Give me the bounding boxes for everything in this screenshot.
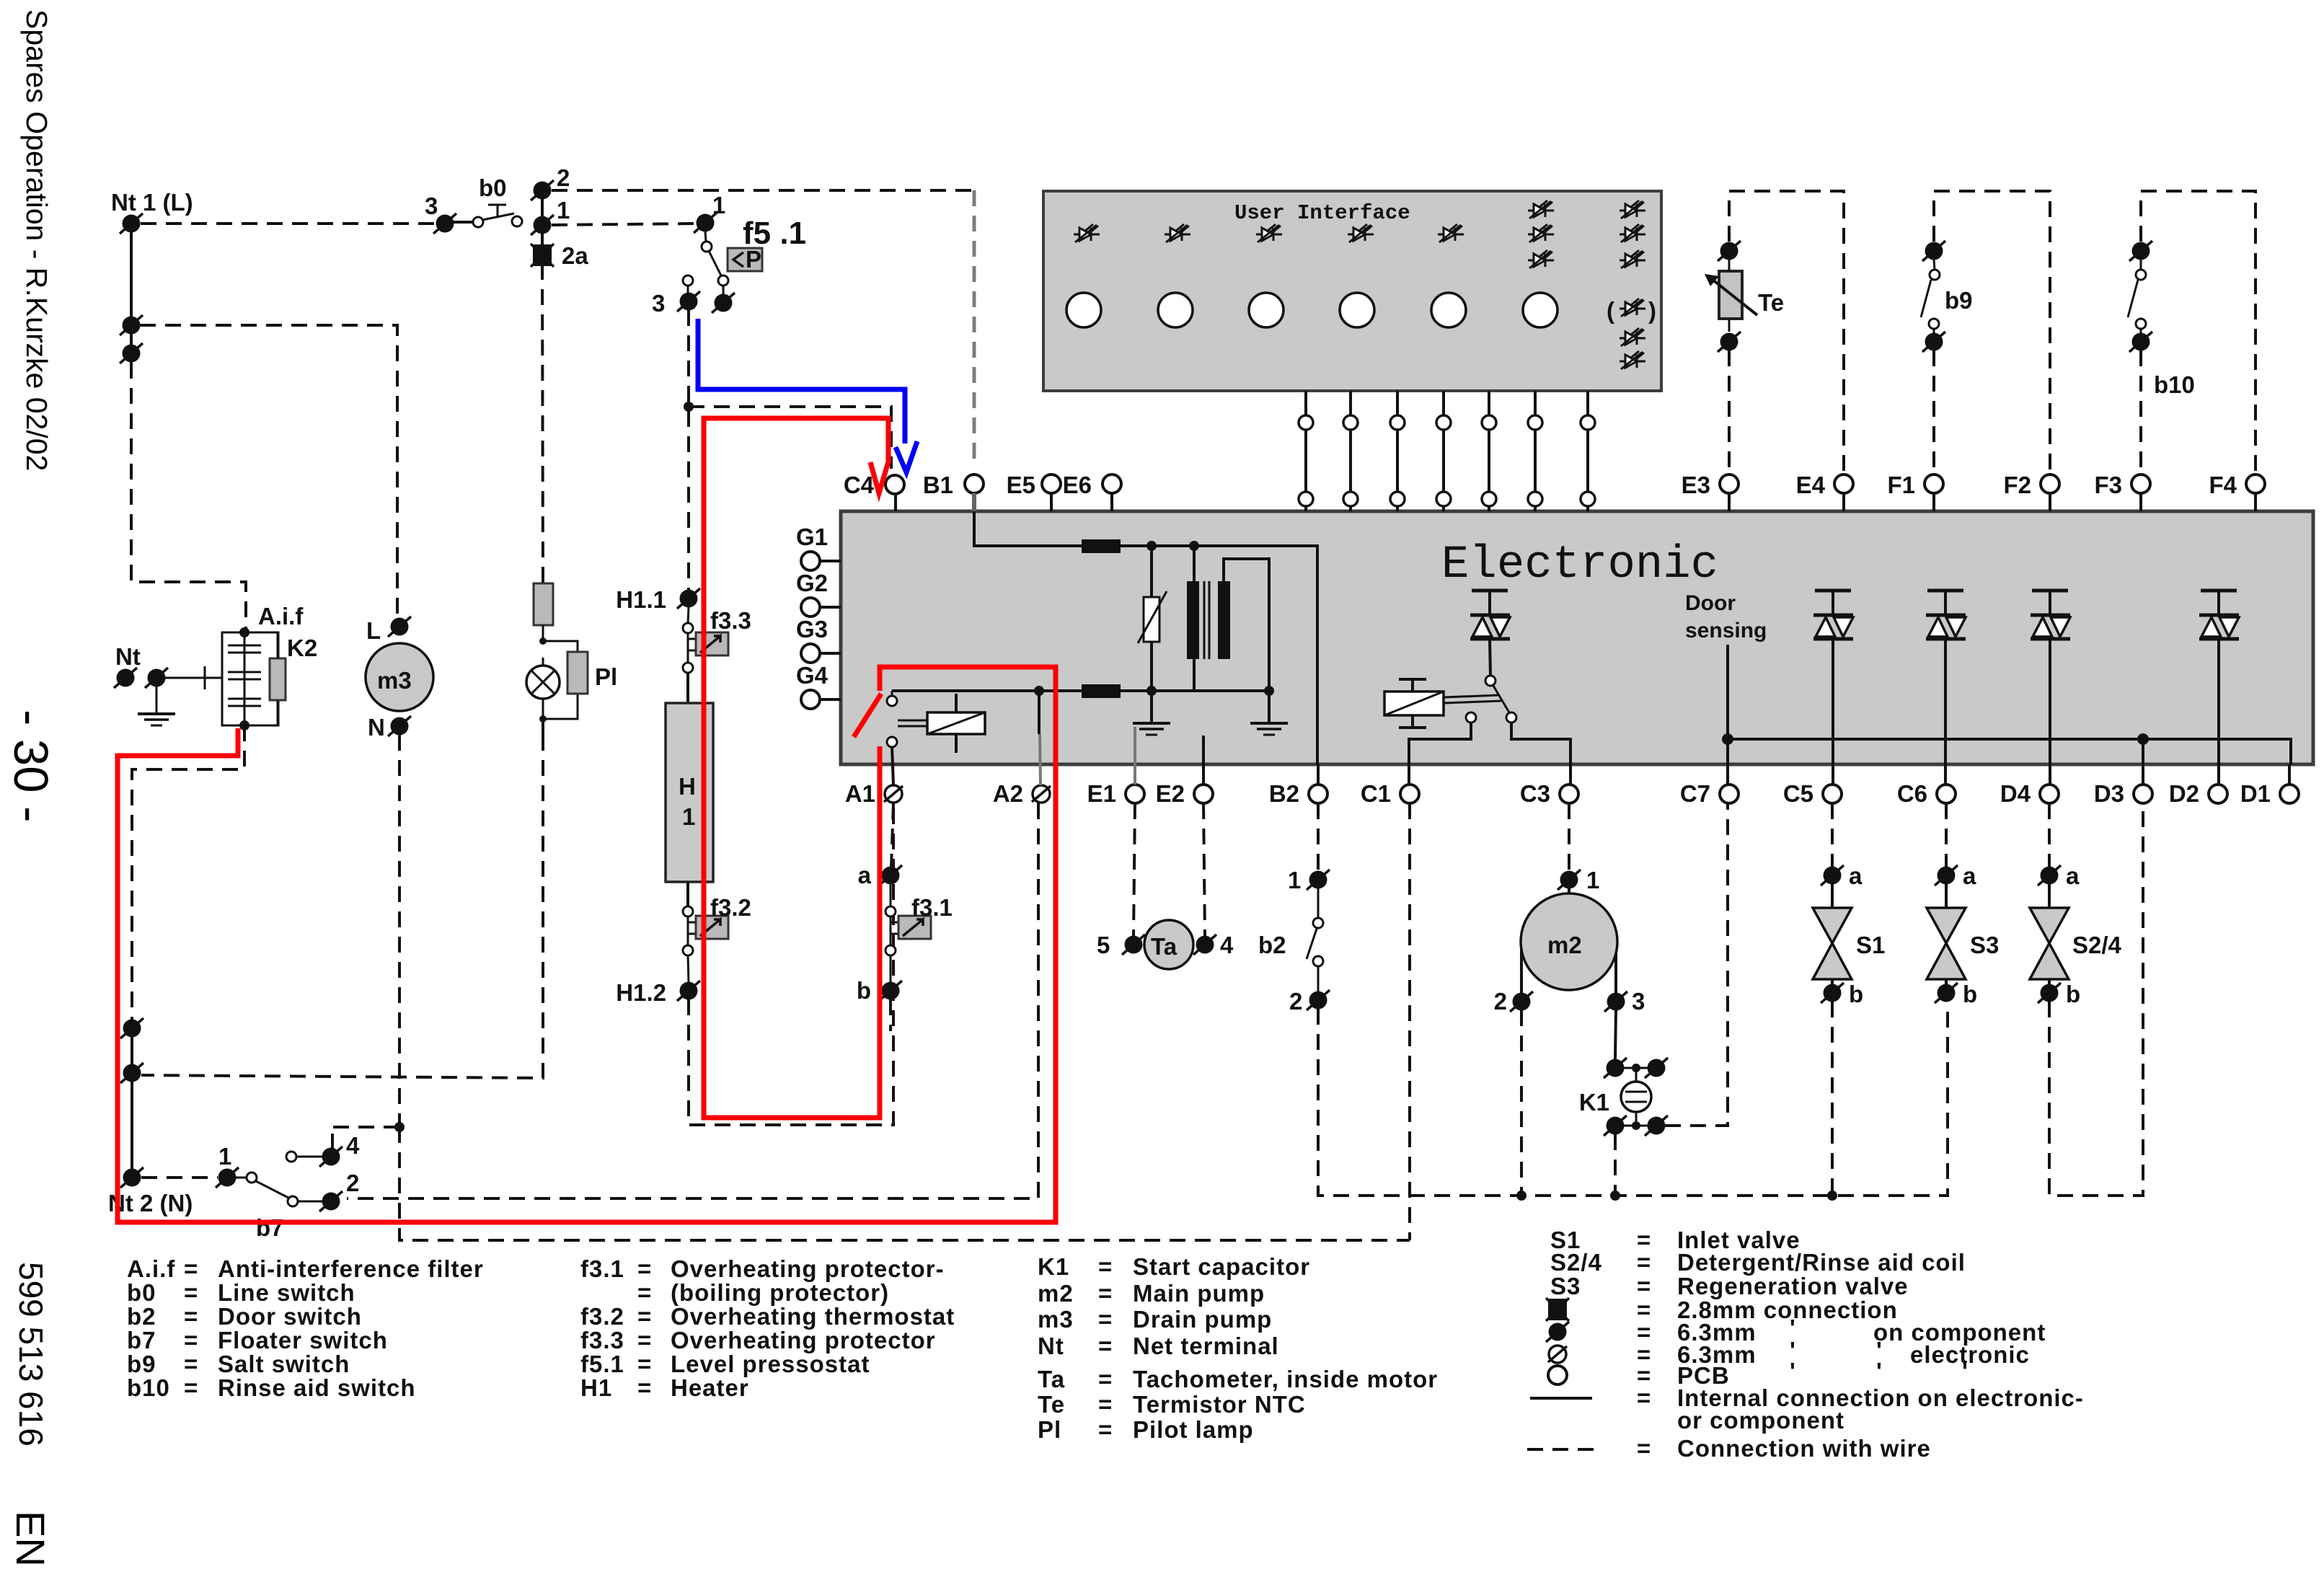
svg-text:b2: b2 <box>1258 932 1286 958</box>
svg-text:Nt 1 (L): Nt 1 (L) <box>111 189 193 216</box>
svg-text:=: = <box>1637 1435 1651 1462</box>
svg-text:': ' <box>1962 1358 1969 1384</box>
svg-text:H1.1: H1.1 <box>616 586 666 613</box>
svg-text:E1: E1 <box>1087 780 1116 807</box>
svg-text:G3: G3 <box>796 616 828 642</box>
svg-text:m2: m2 <box>1038 1280 1074 1307</box>
svg-text:b0: b0 <box>127 1279 156 1306</box>
svg-text:H: H <box>679 773 696 800</box>
svg-text:f3.1: f3.1 <box>580 1255 624 1282</box>
svg-text:f3.3: f3.3 <box>710 607 751 634</box>
svg-text:F1: F1 <box>1887 472 1915 498</box>
svg-text:b: b <box>2066 981 2080 1007</box>
svg-text:f5.1: f5.1 <box>580 1351 624 1377</box>
svg-text:1: 1 <box>1288 867 1301 893</box>
svg-text:A1: A1 <box>845 780 875 807</box>
svg-text:E2: E2 <box>1156 780 1185 807</box>
svg-text:Nt: Nt <box>1038 1333 1064 1359</box>
svg-text:): ) <box>1648 297 1656 324</box>
svg-text:=: = <box>184 1255 198 1282</box>
svg-text:E4: E4 <box>1796 472 1826 498</box>
svg-text:=: = <box>184 1351 198 1377</box>
svg-text:S1: S1 <box>1856 932 1885 958</box>
svg-text:User Interface: User Interface <box>1234 201 1410 225</box>
svg-text:B2: B2 <box>1269 780 1299 807</box>
svg-text:C4: C4 <box>844 472 875 498</box>
svg-text:P: P <box>746 246 761 273</box>
svg-text:C7: C7 <box>1680 780 1710 807</box>
svg-text:G2: G2 <box>796 570 828 596</box>
svg-text:F3: F3 <box>2094 472 2122 498</box>
svg-text:=: = <box>1637 1273 1651 1299</box>
svg-text:A.i.f: A.i.f <box>127 1255 175 1282</box>
svg-text:B1: B1 <box>923 472 953 498</box>
svg-text:C5: C5 <box>1783 780 1813 807</box>
svg-text:S2/4: S2/4 <box>2072 932 2122 958</box>
svg-text:=: = <box>184 1327 198 1353</box>
svg-text:f3.1: f3.1 <box>911 894 953 921</box>
svg-text:G1: G1 <box>796 524 828 550</box>
svg-text:=: = <box>184 1374 198 1401</box>
svg-text:K2: K2 <box>287 635 317 661</box>
svg-text:b7: b7 <box>256 1214 284 1241</box>
svg-text:D1: D1 <box>2240 780 2271 807</box>
svg-text:S3: S3 <box>1970 932 1999 958</box>
svg-text:E6: E6 <box>1063 472 1092 498</box>
svg-text:L: L <box>366 617 381 644</box>
svg-text:Door switch: Door switch <box>218 1303 362 1330</box>
svg-text:or component: or component <box>1677 1407 1844 1434</box>
svg-text:Main pump: Main pump <box>1133 1280 1265 1307</box>
svg-text:=: = <box>1637 1249 1651 1276</box>
svg-text:- 30 -: - 30 - <box>4 710 58 822</box>
svg-text:4: 4 <box>346 1132 360 1159</box>
svg-text:Salt switch: Salt switch <box>218 1351 350 1377</box>
svg-text:Rinse aid switch: Rinse aid switch <box>218 1374 416 1401</box>
svg-text:=: = <box>637 1303 652 1330</box>
svg-text:Overheating protector: Overheating protector <box>671 1327 936 1353</box>
svg-text:K1: K1 <box>1579 1089 1609 1116</box>
svg-text:Nt 2 (N): Nt 2 (N) <box>108 1190 193 1216</box>
svg-text:f3.2: f3.2 <box>580 1303 624 1330</box>
svg-text:2: 2 <box>346 1170 359 1196</box>
svg-text:Overheating protector-: Overheating protector- <box>671 1255 945 1282</box>
svg-text:m2: m2 <box>1547 932 1582 958</box>
svg-text:f3.2: f3.2 <box>710 894 751 921</box>
svg-text:H1: H1 <box>580 1374 612 1401</box>
svg-text:Te: Te <box>1038 1391 1065 1418</box>
svg-text:Net terminal: Net terminal <box>1133 1333 1279 1359</box>
svg-text:b: b <box>857 977 871 1004</box>
svg-text:3: 3 <box>425 193 438 219</box>
svg-text:Ta: Ta <box>1151 933 1178 960</box>
svg-text:D2: D2 <box>2169 780 2199 807</box>
svg-text:Anti-interference filter: Anti-interference filter <box>218 1255 484 1282</box>
svg-text:b0: b0 <box>479 175 507 201</box>
svg-text:Te: Te <box>1758 289 1784 316</box>
svg-text:=: = <box>1098 1416 1113 1443</box>
svg-text:=: = <box>1637 1384 1651 1411</box>
svg-text:electronic: electronic <box>1910 1341 2030 1368</box>
svg-text:S3: S3 <box>1550 1273 1581 1299</box>
svg-text:b: b <box>1849 981 1863 1007</box>
svg-text:Start capacitor: Start capacitor <box>1133 1253 1310 1280</box>
svg-text:=: = <box>637 1374 652 1401</box>
svg-text:Door: Door <box>1685 591 1736 615</box>
svg-text:': ' <box>1790 1358 1796 1384</box>
svg-text:Pilot lamp: Pilot lamp <box>1133 1416 1254 1443</box>
svg-text:=: = <box>637 1351 652 1377</box>
svg-text:Level pressostat: Level pressostat <box>671 1351 870 1377</box>
svg-text:Electronic: Electronic <box>1441 539 1718 591</box>
svg-text:sensing: sensing <box>1685 619 1767 642</box>
svg-text:K1: K1 <box>1038 1253 1069 1280</box>
svg-text:a: a <box>858 862 872 888</box>
svg-text:b7: b7 <box>127 1327 156 1353</box>
svg-text:Pl: Pl <box>595 663 617 690</box>
svg-text:b10: b10 <box>2154 371 2195 398</box>
svg-text:Floater switch: Floater switch <box>218 1327 388 1353</box>
svg-text:Ta: Ta <box>1038 1366 1065 1392</box>
svg-text:(boiling protector): (boiling protector) <box>671 1279 889 1306</box>
svg-text:=: = <box>1098 1306 1113 1333</box>
svg-text:4: 4 <box>1220 932 1234 958</box>
svg-text:a: a <box>1849 862 1863 889</box>
svg-text:b2: b2 <box>127 1303 156 1330</box>
svg-text:A2: A2 <box>993 780 1023 807</box>
svg-text:D4: D4 <box>2000 780 2031 807</box>
svg-text:N: N <box>368 714 385 741</box>
svg-text:E3: E3 <box>1682 472 1710 498</box>
svg-text:3: 3 <box>652 290 665 317</box>
svg-text:G4: G4 <box>796 662 829 689</box>
svg-text:1: 1 <box>218 1143 231 1170</box>
svg-text:Regeneration valve: Regeneration valve <box>1677 1273 1909 1299</box>
svg-text:=: = <box>1098 1253 1113 1280</box>
svg-text:Tachometer, inside motor: Tachometer, inside motor <box>1133 1366 1438 1392</box>
svg-text:f3.3: f3.3 <box>580 1327 624 1353</box>
svg-text:A.i.f: A.i.f <box>258 603 304 630</box>
svg-text:b: b <box>1963 981 1977 1007</box>
svg-text:a: a <box>2066 862 2080 889</box>
svg-text:C1: C1 <box>1361 780 1391 807</box>
svg-text:2a: 2a <box>562 242 588 269</box>
svg-text:2: 2 <box>1289 988 1302 1015</box>
svg-text:=: = <box>1098 1391 1113 1418</box>
svg-text:=: = <box>1098 1333 1113 1359</box>
svg-text:a: a <box>1963 862 1976 889</box>
svg-text:Termistor NTC: Termistor NTC <box>1133 1391 1306 1418</box>
svg-text:m3: m3 <box>377 667 412 694</box>
svg-text:=: = <box>1098 1280 1113 1307</box>
svg-text:2: 2 <box>557 164 570 191</box>
svg-text:S2/4: S2/4 <box>1550 1249 1602 1276</box>
svg-text:1: 1 <box>712 192 725 218</box>
svg-text:Spares Operation - R.Kurzke 02: Spares Operation - R.Kurzke 02/02 <box>20 9 53 471</box>
svg-text:F2: F2 <box>2003 472 2031 498</box>
svg-text:2: 2 <box>1494 988 1507 1015</box>
svg-text:1: 1 <box>682 803 695 830</box>
svg-text:b9: b9 <box>1945 287 1973 314</box>
svg-text:Overheating thermostat: Overheating thermostat <box>671 1303 955 1330</box>
svg-text:=: = <box>184 1279 198 1306</box>
svg-text:=: = <box>637 1255 652 1282</box>
svg-text:Nt: Nt <box>115 643 141 670</box>
svg-text:': ' <box>1876 1358 1883 1384</box>
svg-text:Connection with wire: Connection with wire <box>1677 1435 1931 1462</box>
svg-text:Detergent/Rinse aid coil: Detergent/Rinse aid coil <box>1677 1249 1966 1276</box>
svg-text:=: = <box>637 1279 652 1306</box>
svg-text:D3: D3 <box>2094 780 2124 807</box>
svg-text:m3: m3 <box>1038 1306 1074 1333</box>
svg-text:EN: EN <box>8 1511 53 1567</box>
svg-text:1: 1 <box>1586 867 1599 893</box>
svg-text:b9: b9 <box>127 1351 156 1377</box>
svg-text:F4: F4 <box>2209 472 2237 498</box>
svg-text:C6: C6 <box>1897 780 1927 807</box>
svg-text:C3: C3 <box>1520 780 1550 807</box>
svg-text:Drain pump: Drain pump <box>1133 1306 1272 1333</box>
svg-text:1: 1 <box>557 197 570 224</box>
svg-text:3: 3 <box>1632 988 1645 1015</box>
svg-text:=: = <box>637 1327 652 1353</box>
svg-text:599 513 616: 599 513 616 <box>12 1262 50 1447</box>
svg-text:=: = <box>1098 1366 1113 1392</box>
svg-text:5: 5 <box>1097 932 1110 958</box>
svg-text:(: ( <box>1607 297 1614 324</box>
svg-text:Line switch: Line switch <box>218 1279 355 1306</box>
svg-text:Heater: Heater <box>671 1374 749 1401</box>
svg-text:=: = <box>184 1303 198 1330</box>
svg-text:b10: b10 <box>127 1374 170 1401</box>
svg-text:E5: E5 <box>1007 472 1035 498</box>
svg-text:Pl: Pl <box>1038 1416 1061 1443</box>
svg-text:H1.2: H1.2 <box>616 979 666 1006</box>
